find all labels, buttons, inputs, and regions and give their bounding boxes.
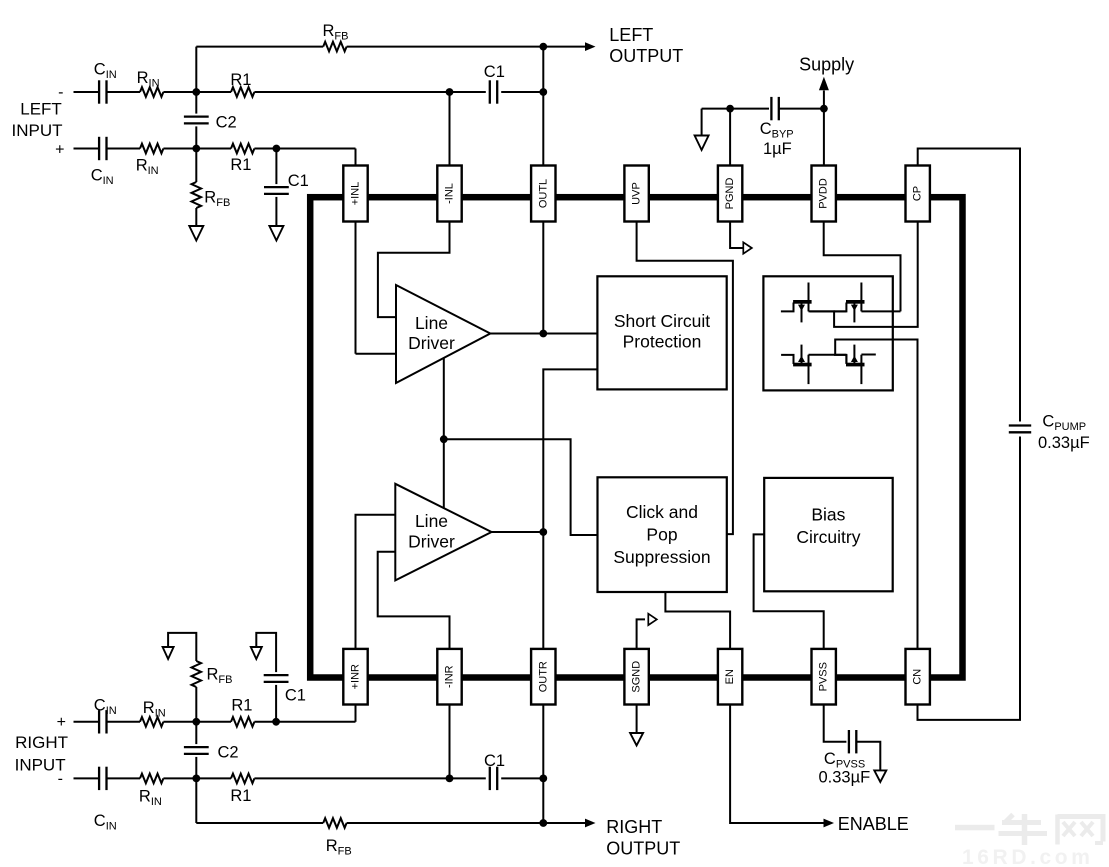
svg-text:CN: CN (912, 669, 924, 685)
svg-text:0.33µF: 0.33µF (1038, 434, 1090, 452)
svg-text:16RD.com: 16RD.com (962, 846, 1094, 867)
svg-text:PVSS: PVSS (818, 662, 830, 691)
svg-text:OUTR: OUTR (537, 661, 549, 692)
svg-text:SGND: SGND (631, 661, 643, 693)
svg-text:OUTPUT: OUTPUT (606, 839, 680, 859)
svg-text:Line: Line (415, 511, 448, 531)
svg-text:C1: C1 (288, 172, 309, 190)
svg-text:Protection: Protection (623, 332, 702, 352)
svg-text:Circuitry: Circuitry (796, 527, 860, 547)
svg-text:Suppression: Suppression (613, 547, 710, 567)
svg-text:UVP: UVP (631, 182, 643, 205)
svg-text:0.33µF: 0.33µF (819, 768, 871, 786)
svg-text:C2: C2 (216, 114, 237, 132)
svg-text:OUTPUT: OUTPUT (609, 46, 683, 66)
svg-text:Bias: Bias (811, 505, 845, 525)
svg-text:OUTL: OUTL (537, 179, 549, 208)
svg-text:PGND: PGND (724, 178, 736, 210)
svg-text:+: + (55, 142, 64, 159)
svg-text:+INR: +INR (350, 664, 362, 689)
svg-text:C2: C2 (218, 744, 239, 762)
svg-text:1µF: 1µF (763, 140, 792, 158)
svg-text:Supply: Supply (799, 55, 854, 75)
svg-text:PVDD: PVDD (818, 178, 830, 209)
svg-text:C1: C1 (484, 63, 505, 81)
svg-text:Driver: Driver (408, 333, 455, 353)
svg-text:R1: R1 (230, 787, 251, 805)
svg-text:Driver: Driver (408, 532, 455, 552)
svg-text:R1: R1 (230, 71, 251, 89)
svg-text:-INR: -INR (444, 665, 456, 688)
svg-text:CP: CP (912, 186, 924, 201)
svg-text:-: - (58, 84, 63, 101)
svg-text:INPUT: INPUT (12, 121, 63, 140)
svg-text:-INL: -INL (444, 183, 456, 204)
svg-text:R1: R1 (230, 156, 251, 174)
svg-text:ENABLE: ENABLE (838, 814, 909, 834)
svg-text:Pop: Pop (646, 525, 677, 545)
svg-text:LEFT: LEFT (20, 100, 62, 119)
svg-text:EN: EN (724, 669, 736, 684)
svg-text:RIGHT: RIGHT (606, 817, 662, 837)
svg-text:Click and: Click and (626, 502, 698, 522)
svg-text:C1: C1 (285, 687, 306, 705)
svg-text:Line: Line (415, 313, 448, 333)
svg-text:R1: R1 (231, 697, 252, 715)
svg-text:LEFT: LEFT (609, 25, 653, 45)
svg-text:+INL: +INL (350, 182, 362, 206)
svg-text:+: + (57, 714, 66, 731)
svg-text:-: - (58, 771, 63, 788)
svg-text:RIGHT: RIGHT (15, 733, 68, 752)
svg-text:C1: C1 (484, 752, 505, 770)
svg-text:Short Circuit: Short Circuit (614, 311, 710, 331)
